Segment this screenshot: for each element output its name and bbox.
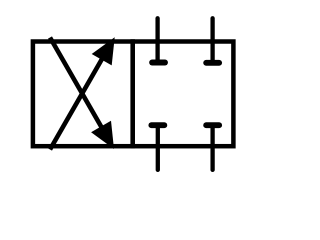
flow path arrow shaft: upper-left to lower-right <box>50 38 108 139</box>
blocked port T-bar: bottom-left <box>151 122 164 128</box>
blocked port T-bar: top-left <box>152 60 165 66</box>
valve body: right position box (all ports blocked) <box>133 42 234 147</box>
port stub: bottom-right port of right box <box>210 125 214 170</box>
blocked port T-bar: bottom-right <box>206 122 219 128</box>
arrowhead: lower-right <box>91 121 114 149</box>
arrowhead: upper-right <box>92 37 115 65</box>
flow path arrow shaft: lower-left to upper-right <box>50 49 108 150</box>
blocked port T-bar: top-right <box>206 60 219 66</box>
valve body: left position box (crossed flow) <box>33 42 133 147</box>
port stub: top-right port of right box <box>210 18 214 63</box>
port stub: bottom-left port of right box <box>156 125 160 170</box>
port stub: top-left port of right box <box>155 18 159 62</box>
